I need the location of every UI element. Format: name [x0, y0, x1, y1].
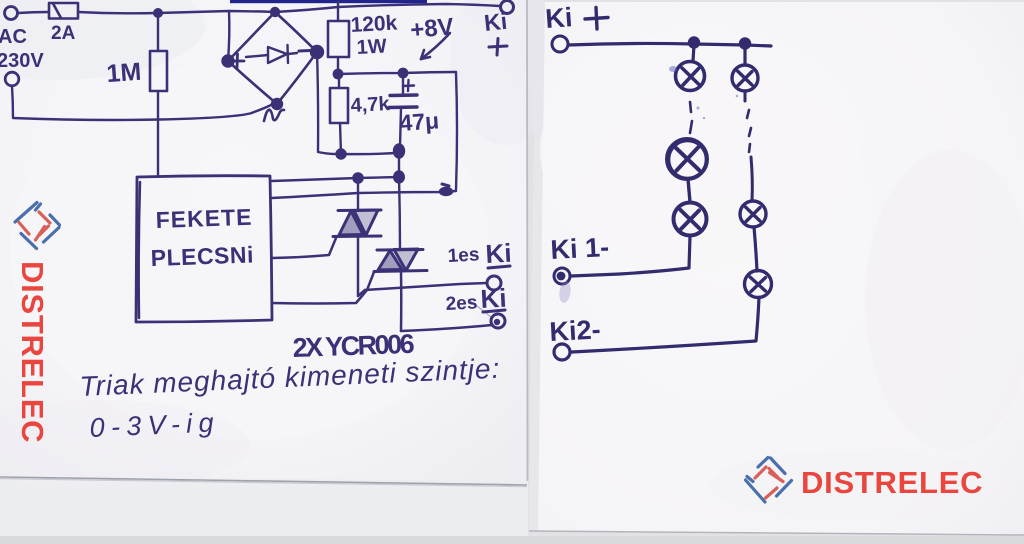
- lamp L1: [676, 62, 705, 91]
- node on +8V rail at cap: [399, 69, 407, 77]
- lamp L6: [745, 271, 772, 298]
- Distrelec logo right: icon: [746, 458, 792, 503]
- svg-text:FEKETE: FEKETE: [155, 204, 253, 233]
- terminal 2es KI: [491, 314, 505, 328]
- resistor R1 1M: [150, 13, 167, 176]
- left paper: [0, 0, 527, 481]
- wire: +8V return to box (wire B): [272, 191, 456, 198]
- wire: Q2 MT1 down: [400, 271, 403, 331]
- wire: +8V rail: [338, 72, 456, 74]
- node: bridge left vertex: [223, 56, 234, 67]
- wire: top rail to Ki+ terminal: [275, 4, 500, 12]
- wire: triac2 MT2 drop: [399, 177, 400, 249]
- wire: neg rail down to triac rail: [398, 156, 400, 176]
- wire: gate of Q2 from box: [272, 272, 374, 304]
- resistor R3 4.7k: [330, 74, 348, 154]
- blue specks: [669, 66, 738, 119]
- capacitor C1 47u: [389, 73, 417, 147]
- wire: Q1 MT1 down: [358, 237, 365, 296]
- underline of 1es Ki: [488, 266, 510, 268]
- wire: node A to bridge top corner: [158, 11, 275, 13]
- svg-text:AC: AC: [0, 26, 27, 48]
- wire: negative rail from bridge right vertex: [317, 52, 396, 154]
- wire: +8V loop right vertical: [456, 72, 457, 190]
- node: 4.7k bottom junction: [337, 150, 346, 159]
- underline of 2es Ki: [483, 310, 505, 312]
- wire: Ki+ bus: [568, 43, 771, 46]
- capacitor + polarity mark: [403, 80, 414, 91]
- ink smudge below Ki1-: [558, 280, 572, 303]
- tick mark above blob: [442, 184, 449, 186]
- terminal 1es KI: [487, 276, 501, 290]
- wire: branch2 stub: [743, 46, 746, 64]
- bridge + mark: [231, 54, 244, 68]
- Distrelec logo left (rotated): icon: [15, 203, 60, 444]
- terminal 2es KI inner blob: [494, 319, 500, 325]
- wire: branch1 down to Ki1-: [571, 236, 690, 276]
- node: triac1 MT2 junction: [353, 173, 362, 182]
- wire: branch2 down to Ki2-: [572, 298, 759, 353]
- wire: AC N down and right to bridge bottom vertex: [12, 86, 271, 120]
- terminal Ki1- (filled): [554, 268, 570, 284]
- terminal Ki+ (left paper): [501, 1, 514, 14]
- terminal AC L: [5, 7, 18, 20]
- lamp L3: [674, 203, 707, 236]
- right paper: [529, 2, 1024, 535]
- plus mark (left paper Ki+): [489, 39, 507, 56]
- wire: L5 to L6: [754, 227, 757, 271]
- svg-text:+8V: +8V: [409, 13, 455, 44]
- lamp L2 (big): [667, 139, 707, 179]
- right paper bottom edge: [529, 531, 1024, 535]
- svg-text:Ki 1-: Ki 1-: [550, 232, 610, 265]
- continuation dashes branch2: [747, 110, 751, 152]
- node: lamp branch 1 tap: [689, 38, 699, 48]
- wire: gate of Q1 from box: [272, 238, 336, 258]
- wire: to terminal 1es KI: [365, 283, 487, 290]
- terminal Ki+ (right paper): [552, 36, 568, 52]
- svg-text:1M: 1M: [106, 58, 143, 88]
- terminal Ki2-: [554, 344, 570, 360]
- svg-text:120k: 120k: [350, 12, 398, 37]
- wire: to terminal 2es KI: [401, 325, 492, 331]
- scanner bar artifact top: [230, 0, 427, 3]
- wire: branch1 stub: [693, 45, 694, 61]
- terminal AC N: [5, 72, 19, 86]
- svg-text:DISTRELEC: DISTRELEC: [15, 261, 50, 443]
- triac Q2: [374, 249, 427, 272]
- svg-text:47μ: 47μ: [399, 107, 440, 136]
- node: bridge top vertex: [271, 8, 279, 16]
- wire: drop to bridge left vertex: [228, 11, 229, 61]
- fuse F1 2A: [49, 3, 78, 19]
- svg-text:2A: 2A: [51, 23, 76, 44]
- wire: L2 to L3: [688, 179, 690, 202]
- wire: triac MT2 rail (to box pin): [272, 177, 399, 181]
- stray pen line to terminal: [468, 299, 491, 317]
- triac Q1: [333, 210, 381, 237]
- node: blob at end of +8V loop: [440, 188, 452, 195]
- svg-text:Ki: Ki: [485, 238, 513, 269]
- wire: short stub below L4: [744, 92, 747, 102]
- node: lamp branch 2 tap: [740, 39, 750, 49]
- lamp L4: [732, 65, 758, 91]
- label N (neutral): [264, 110, 284, 121]
- lamp L5: [740, 201, 766, 227]
- wire: fuse to node A: [78, 12, 158, 13]
- svg-text:PLECSNi: PLECSNi: [150, 241, 254, 271]
- svg-text:Ki2-: Ki2-: [549, 314, 602, 347]
- node: bridge bottom vertex: [272, 99, 282, 109]
- svg-text:DISTRELEC: DISTRELEC: [801, 465, 983, 500]
- svg-text:1es: 1es: [447, 244, 480, 267]
- svg-text:4,7k: 4,7k: [350, 93, 391, 117]
- left paper bottom edge: [0, 477, 527, 485]
- node: cap bottom blob: [394, 145, 404, 158]
- node: bridge right vertex: [311, 46, 323, 58]
- svg-text:2es: 2es: [445, 292, 478, 315]
- node: 120k bottom junction: [334, 70, 342, 78]
- svg-text:230V: 230V: [0, 50, 44, 72]
- svg-text:1W: 1W: [356, 35, 387, 59]
- wire: branch2 resume down: [751, 157, 752, 201]
- wire: AC L to fuse: [18, 12, 49, 13]
- box U1 FEKETE PLECSNI: [136, 176, 272, 322]
- bridge diode symbol: [246, 45, 310, 63]
- left paper right edge: [526, 0, 529, 481]
- left paper shading: [0, 0, 205, 80]
- bridge rectifier B1: [228, 12, 317, 104]
- resistor R2 120k 1W: [328, 2, 349, 74]
- box left edge double stroke: [139, 182, 140, 318]
- svg-text:Ki: Ki: [483, 8, 509, 36]
- node: triac rail blob: [394, 172, 404, 183]
- svg-text:Ki: Ki: [544, 2, 573, 34]
- continuation dashes branch1: [690, 102, 692, 133]
- wire: triac1 MT2 drop: [357, 178, 359, 209]
- node A junction: [154, 9, 162, 17]
